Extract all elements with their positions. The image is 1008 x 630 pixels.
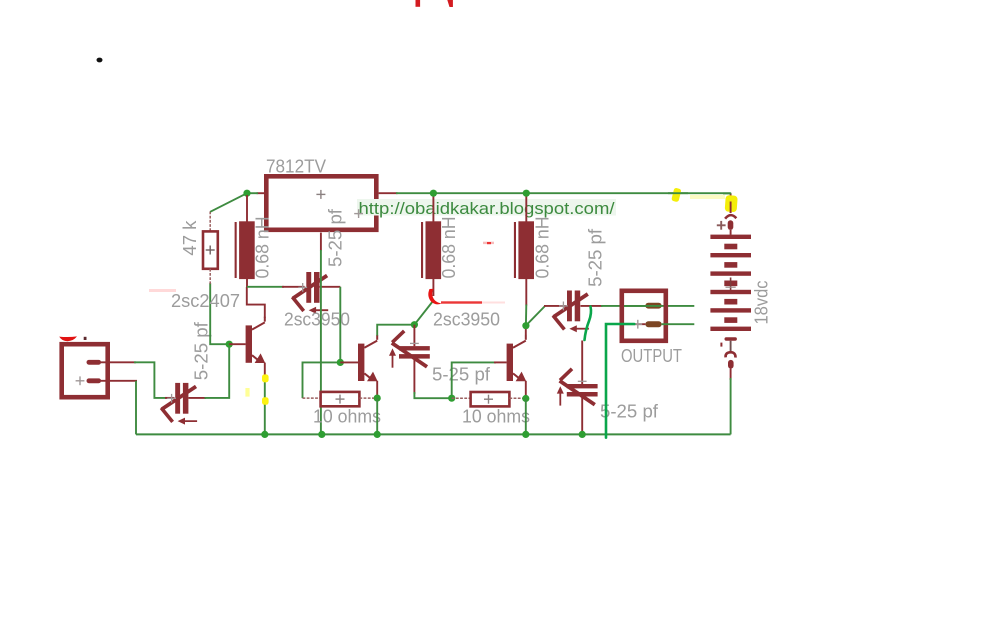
svg-text:5-25 pf: 5-25 pf — [191, 321, 212, 380]
stray black dot — [97, 58, 103, 63]
gray cross near url — [354, 209, 363, 218]
wire node A to U1 input — [247, 192, 258, 194]
trimmer capacitor C3 5-25pf — [389, 325, 430, 394]
node R2 right junction — [374, 395, 381, 402]
wire battery negative to bus — [730, 378, 732, 434]
transistor Q3 2sc3950 — [494, 328, 526, 399]
node rail junction L2 — [430, 190, 437, 197]
wire L1 to C2 — [247, 286, 284, 288]
node Q2 base junction — [337, 359, 344, 366]
node bus junction 4 — [522, 431, 529, 438]
node rail junction L3 — [523, 190, 530, 197]
svg-text:5-25 pf: 5-25 pf — [324, 208, 345, 267]
hand-drawn green wire OUTPUT pin2 to bus — [606, 324, 634, 438]
wire C3 bottom to R3 left node — [414, 392, 451, 398]
trimmer capacitor C4 5-25pf — [544, 291, 603, 333]
ground bus wire — [136, 433, 731, 435]
url halo — [357, 199, 616, 216]
node R3 right junction — [522, 395, 529, 402]
wire R3 left node up to Q3 base — [452, 362, 496, 398]
red scribble near L2 bottom — [428, 289, 441, 305]
svg-text:7812TV: 7812TV — [266, 156, 327, 177]
transistor Q1 2sc2407 — [229, 287, 265, 380]
yellow highlight on Q1 emitter wire lower — [262, 397, 269, 405]
yellow highlight on Q1 emitter wire upper — [262, 374, 269, 382]
svg-text:http://obaidkakar.blogspot.com: http://obaidkakar.blogspot.com/ — [359, 199, 615, 218]
inductor L2 0.68nH — [421, 193, 441, 296]
node R3 left junction — [448, 395, 455, 402]
hand-drawn green jumper C4 to C5 — [585, 307, 592, 341]
wire L2 to C3 top node (diagonal) — [414, 301, 433, 325]
dark speck on J1 — [84, 337, 87, 340]
node A junction dot — [243, 190, 250, 197]
node bus junction 2 — [318, 431, 325, 438]
wire R1 bottom to Q1 base node — [210, 283, 229, 344]
svg-text:OUTPUT: OUTPUT — [621, 345, 682, 366]
trimmer capacitor C1 5-25pf — [161, 383, 206, 425]
wire L3 to Q3 collector node — [525, 305, 527, 326]
wire node A to R1 top (diagonal) — [210, 193, 247, 212]
wire OUTPUT pin1 through box — [624, 305, 662, 307]
wire Q2 base node to R2 left — [303, 362, 341, 398]
svg-text:5-25 pf: 5-25 pf — [584, 228, 605, 287]
transistor Q2 2sc3950 — [340, 335, 377, 398]
svg-text:2sc2407: 2sc2407 — [171, 290, 240, 311]
resistor R1 47k — [203, 212, 218, 285]
resistor R2 10 ohms — [303, 392, 378, 406]
wire C1 to Q1 base node — [205, 344, 230, 398]
red scribble on J1 — [59, 336, 77, 341]
wire R2 right to bus — [376, 398, 378, 434]
wire C2 to Q2 base node — [339, 287, 341, 363]
wire OUTPUT pin2 stub right — [662, 323, 695, 325]
wire C4 to OUTPUT pin1 — [601, 305, 694, 307]
wire rail overlay at highlight — [668, 192, 688, 194]
regulator U1 7812TV — [257, 176, 398, 250]
wire U1 output rail — [396, 192, 731, 194]
inductor L1 0.68nH — [235, 195, 255, 287]
resistor R3 10 ohms — [452, 392, 526, 406]
connector OUTPUT — [620, 291, 666, 341]
svg-text:2sc3950: 2sc3950 — [284, 309, 350, 330]
battery B1 18vdc — [710, 193, 751, 380]
wire Q2 collector to C3 top node — [377, 325, 414, 336]
node bus junction 3 — [374, 431, 381, 438]
connector J1 (input) — [62, 344, 108, 397]
faint pink streak left of 2sc2407 label — [149, 289, 176, 292]
red artifact line right of L2 — [441, 301, 482, 303]
svg-text:47 k: 47 k — [179, 220, 200, 256]
yellow highlight on battery corner — [725, 195, 738, 212]
node bus junction 5 — [579, 431, 586, 438]
svg-text:0.68 nH: 0.68 nH — [252, 217, 273, 279]
wire battery positive lead overlay — [730, 202, 732, 214]
wire J1 pin1 to C1 — [101, 362, 167, 398]
wire R3 right to bus — [525, 399, 527, 435]
wire J1 pin2 to ground bus — [101, 381, 137, 435]
node Q3 collector junction — [522, 322, 529, 329]
svg-text:2sc3950: 2sc3950 — [433, 309, 500, 330]
node C3 top junction — [411, 321, 418, 328]
svg-text:5-25 pf: 5-25 pf — [600, 401, 659, 422]
svg-text:0.68 nH: 0.68 nH — [438, 217, 459, 279]
node Q1 base junction — [226, 341, 233, 348]
wire Q1 emitter to bus — [264, 378, 266, 434]
trimmer capacitor C5 5-25pf — [557, 341, 598, 435]
wire rail corner overlay — [723, 192, 731, 194]
red artifact mark top 1 — [416, 0, 421, 7]
wire node to C4 (diagonal) — [526, 306, 545, 326]
faint red dash artifact — [483, 242, 494, 244]
yellow highlight on rail — [671, 188, 681, 203]
svg-text:5-25 pf: 5-25 pf — [432, 363, 491, 384]
red artifact mark top 2 — [447, 0, 453, 7]
svg-text:0.68 nH: 0.68 nH — [532, 217, 553, 279]
svg-text:10 ohms: 10 ohms — [462, 406, 530, 427]
faint yellow streak near Q1 — [245, 388, 249, 397]
wire U1 bottom to bus — [320, 250, 322, 434]
inductor L3 0.68nH — [514, 193, 534, 305]
svg-text:18vdc: 18vdc — [751, 281, 772, 325]
trimmer capacitor C2 5-25pf — [282, 272, 340, 314]
svg-text:10 ohms: 10 ohms — [313, 406, 381, 427]
node bus junction 1 — [261, 431, 268, 438]
